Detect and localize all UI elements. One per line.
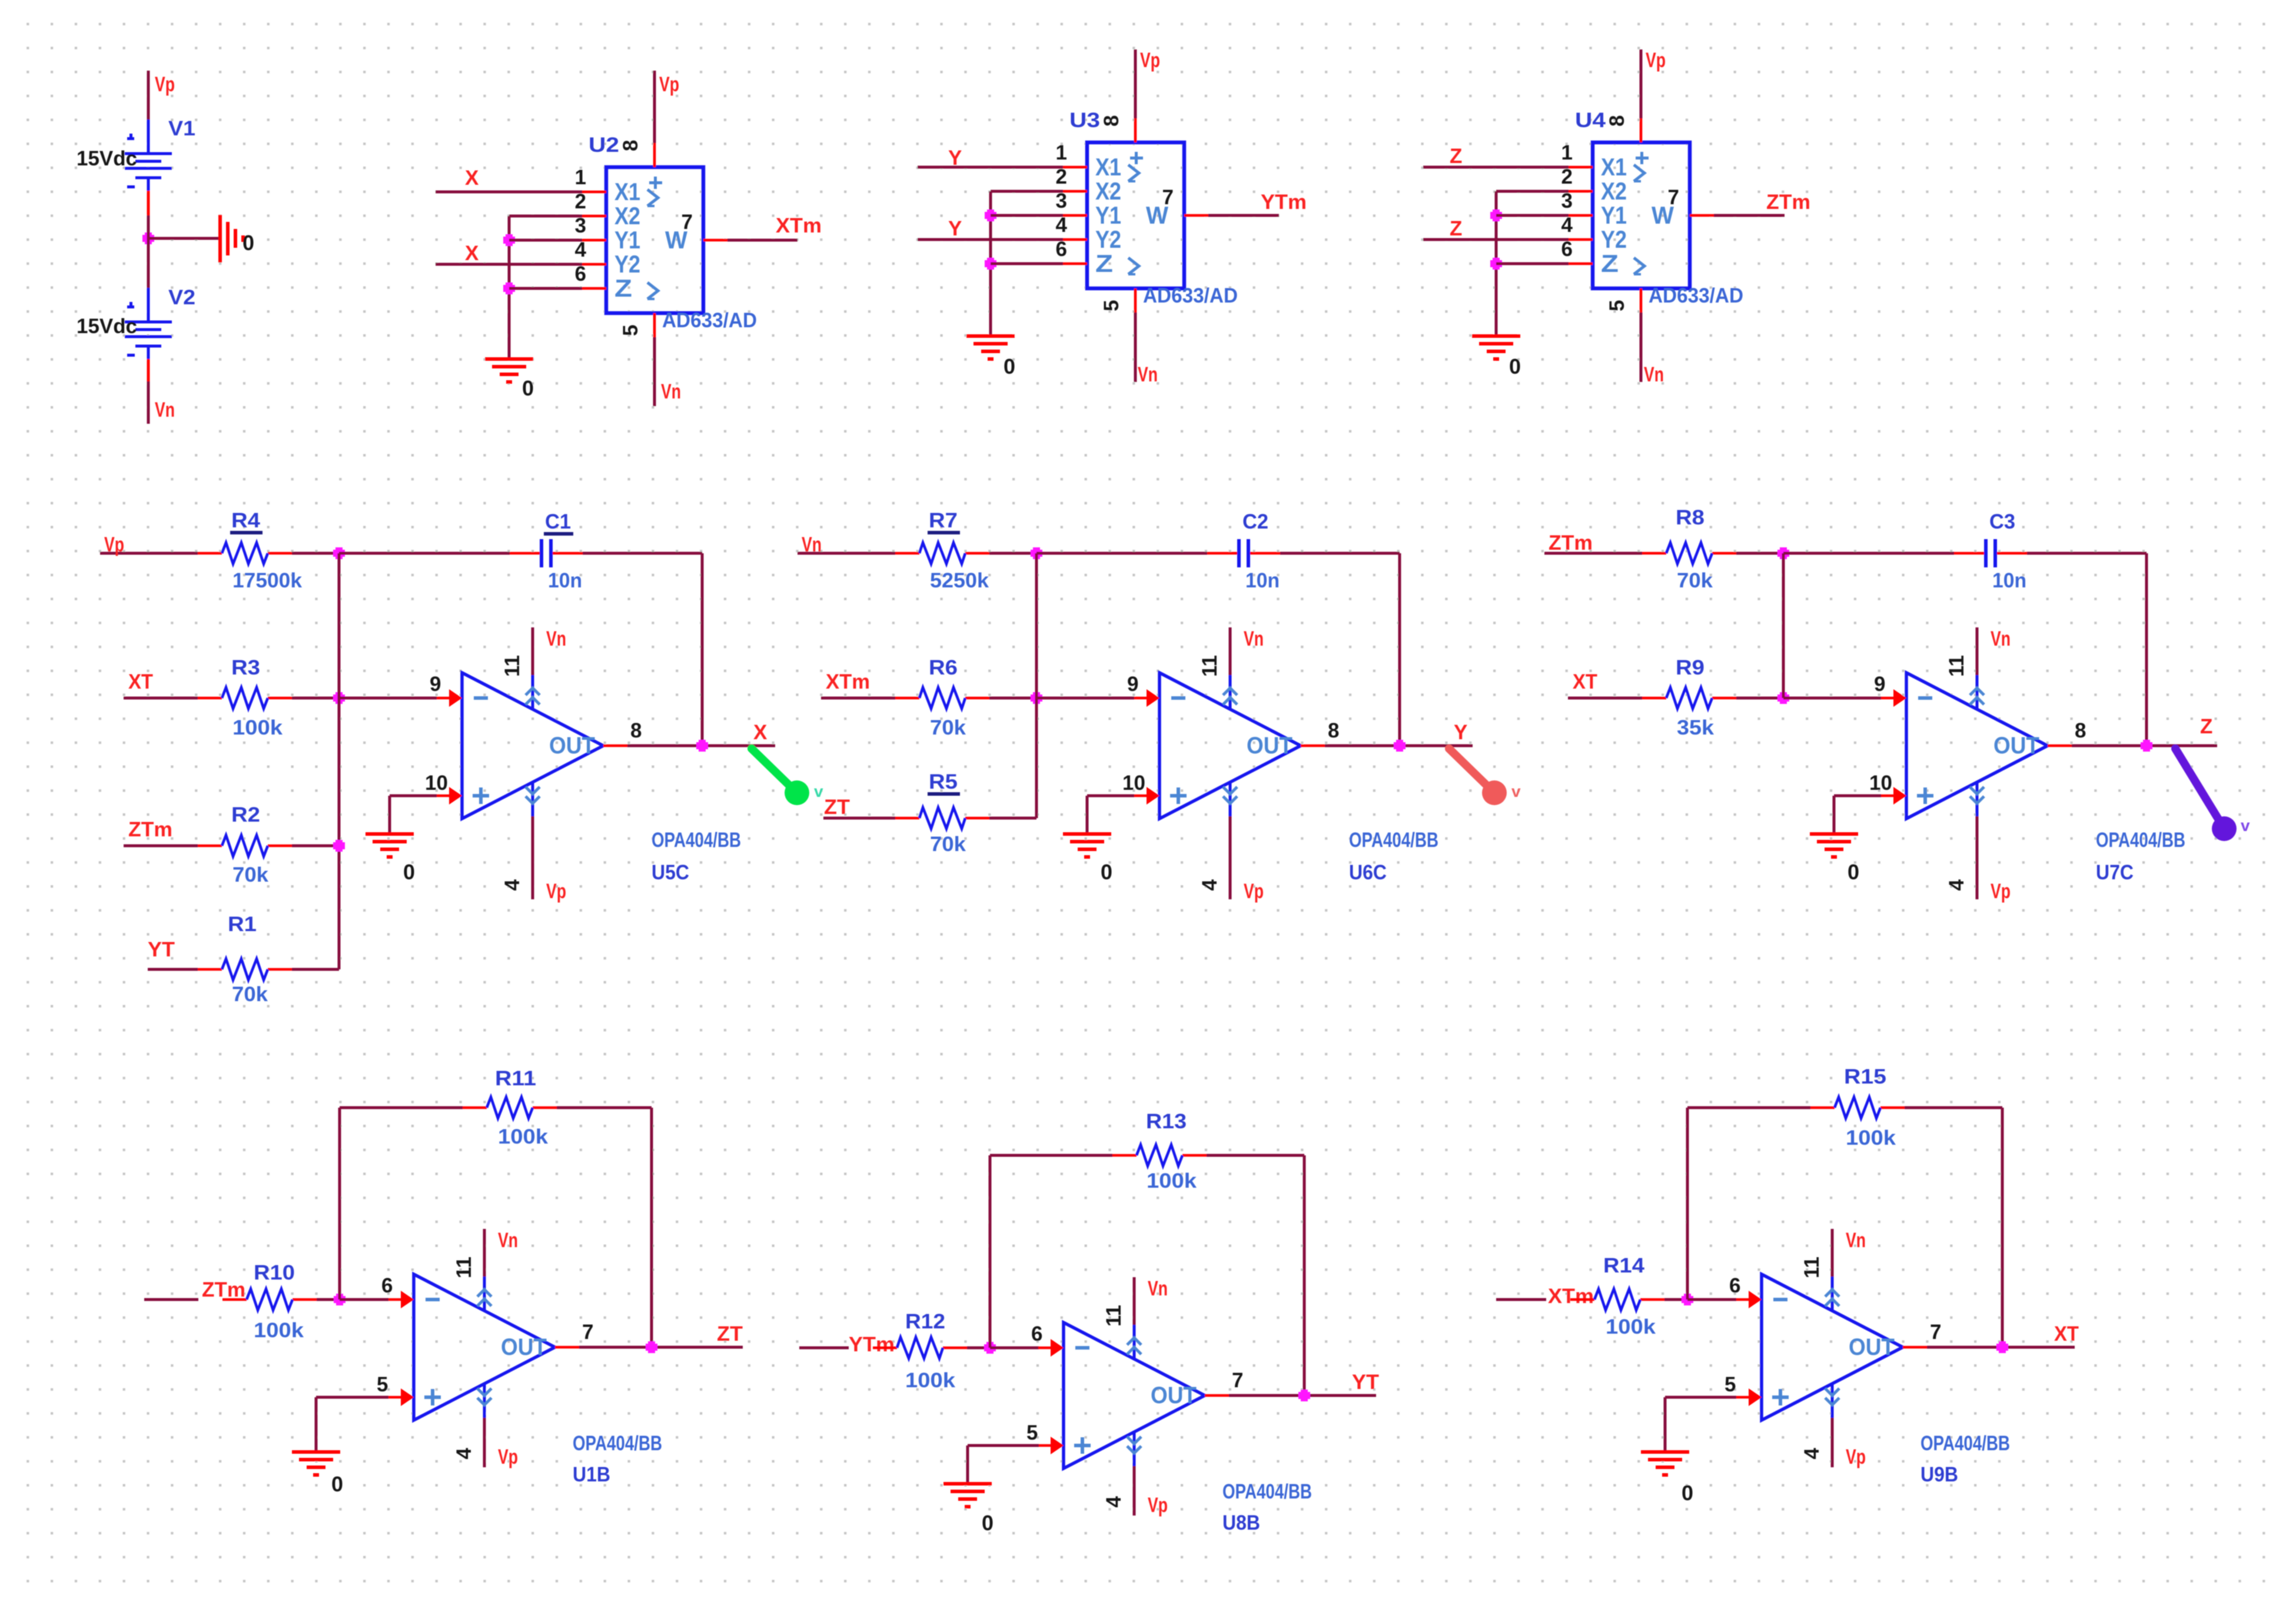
svg-text:9: 9 bbox=[1127, 673, 1138, 696]
svg-text:V2: V2 bbox=[168, 286, 195, 309]
wire Y to U3 pin 1 bbox=[918, 166, 1063, 169]
svg-text:Vn: Vn bbox=[498, 1229, 518, 1252]
resistor R3 100k bbox=[198, 656, 292, 739]
svg-text:Vp: Vp bbox=[1646, 49, 1666, 72]
resistor R14 100k bbox=[1570, 1254, 1664, 1338]
svg-text:6: 6 bbox=[1729, 1274, 1740, 1297]
wire R12 to junction bbox=[967, 1347, 990, 1350]
svg-text:10n: 10n bbox=[548, 569, 582, 592]
junction R8/C3/bus bbox=[1777, 547, 1789, 559]
svg-text:U6C: U6C bbox=[1349, 861, 1387, 884]
svg-text:R12: R12 bbox=[905, 1310, 945, 1333]
svg-text:70k: 70k bbox=[1677, 569, 1713, 592]
svg-text:5: 5 bbox=[1606, 300, 1629, 311]
wire U7C + input to ground bbox=[1834, 796, 1881, 834]
net label Vp (V1 top) bbox=[155, 73, 175, 96]
voltage probe Y (red) bbox=[1449, 749, 1521, 805]
wire U5C out to X bbox=[627, 745, 775, 747]
resistor R12 100k bbox=[873, 1310, 967, 1392]
resistor R15 100k bbox=[1810, 1065, 1905, 1149]
wire R3 to junction bbox=[292, 697, 339, 700]
wire R15 to right corner bbox=[1905, 1106, 2002, 1109]
svg-text:10: 10 bbox=[425, 772, 448, 795]
svg-text:0: 0 bbox=[1101, 860, 1112, 884]
wire U2 bus to pin Z bbox=[509, 287, 582, 290]
junction R12/U8B-/fb bbox=[984, 1342, 996, 1354]
svg-text:Vp: Vp bbox=[104, 533, 124, 556]
svg-text:U8B: U8B bbox=[1222, 1511, 1260, 1534]
svg-text:Vn: Vn bbox=[1244, 627, 1264, 650]
svg-text:4: 4 bbox=[1800, 1447, 1823, 1459]
svg-text:Vn: Vn bbox=[802, 533, 822, 556]
svg-text:11: 11 bbox=[1945, 655, 1968, 677]
wire U7C out to Z bbox=[2072, 745, 2217, 747]
svg-text:Vn: Vn bbox=[1846, 1229, 1866, 1252]
wire Y to U3 pin Y2 bbox=[918, 238, 1063, 241]
wire R6 to junction bbox=[989, 697, 1036, 700]
svg-text:35k: 35k bbox=[1677, 716, 1714, 739]
wire U2 bus to pin Y1 bbox=[509, 239, 582, 242]
svg-text:70k: 70k bbox=[930, 716, 966, 739]
junction U4 bus Y1 bbox=[1490, 210, 1502, 221]
svg-text:U7C: U7C bbox=[2096, 861, 2134, 884]
wire U3 ground bus bbox=[989, 191, 992, 336]
svg-text:9: 9 bbox=[1874, 673, 1885, 696]
wire R9 to junction bbox=[1736, 697, 1783, 700]
net label ZTm (R10 in) bbox=[202, 1278, 245, 1301]
svg-text:ZTm: ZTm bbox=[1766, 191, 1810, 214]
wire Z to U4 pin Y2 bbox=[1423, 238, 1569, 241]
wire fb corner to R13 bbox=[990, 1154, 1112, 1157]
net label YTm bbox=[1261, 191, 1307, 214]
svg-text:OPA404/BB: OPA404/BB bbox=[573, 1432, 662, 1455]
svg-text:X: X bbox=[465, 167, 479, 190]
svg-text:YTm: YTm bbox=[849, 1333, 895, 1356]
svg-text:4: 4 bbox=[1945, 879, 1968, 890]
net label Z (U7C out) bbox=[2200, 715, 2212, 738]
svg-text:8: 8 bbox=[619, 140, 642, 151]
svg-text:R2: R2 bbox=[231, 803, 260, 826]
net label XT (U9B out) bbox=[2054, 1322, 2079, 1345]
svg-text:5: 5 bbox=[1100, 300, 1123, 311]
wire R10 to junction bbox=[317, 1298, 340, 1301]
resistor R13 100k bbox=[1112, 1110, 1207, 1192]
svg-text:R15: R15 bbox=[1844, 1065, 1886, 1088]
op-amp U6C OPA404/BB bbox=[1122, 627, 1438, 903]
wire U2 bus X2 row bbox=[509, 215, 582, 218]
junction U5C out/C1 bbox=[696, 740, 708, 752]
wire U9B feedback down bbox=[2001, 1108, 2004, 1347]
wire XTm to R6 bbox=[821, 697, 895, 700]
wire Vn to R7 bbox=[798, 552, 895, 555]
net label YTm (R12 in) bbox=[849, 1333, 895, 1356]
svg-text:4: 4 bbox=[575, 238, 587, 261]
svg-text:ZTm: ZTm bbox=[1549, 531, 1593, 554]
svg-text:5: 5 bbox=[1026, 1421, 1038, 1444]
op-amp U1B OPA404/BB bbox=[377, 1229, 662, 1486]
svg-text:Y2: Y2 bbox=[1095, 225, 1121, 253]
svg-text:XTm: XTm bbox=[826, 670, 870, 693]
wire XT to R3 bbox=[124, 697, 198, 700]
ground 0 (U5C) bbox=[366, 834, 415, 884]
svg-text:7: 7 bbox=[1232, 1369, 1243, 1392]
junction R7/C2/bus bbox=[1031, 547, 1042, 559]
net label ZT (U1B out) bbox=[717, 1322, 743, 1345]
wire junction to U8B pin 6 bbox=[990, 1347, 1039, 1350]
resistor R2 70k bbox=[198, 803, 292, 886]
svg-text:6: 6 bbox=[381, 1274, 393, 1297]
wire XTm to R14 bbox=[1496, 1298, 1546, 1301]
wire C1 to corner bbox=[583, 552, 702, 555]
svg-text:100k: 100k bbox=[254, 1319, 304, 1342]
svg-text:Z: Z bbox=[1095, 250, 1113, 277]
svg-text:5: 5 bbox=[619, 325, 642, 336]
wire fb corner to R15 bbox=[1687, 1106, 1810, 1109]
net label Vn (U3) bbox=[1138, 363, 1158, 386]
svg-text:100k: 100k bbox=[1606, 1315, 1656, 1338]
net label Y (U3 Y2) bbox=[948, 217, 962, 240]
svg-text:YT: YT bbox=[148, 938, 175, 961]
net label Z (U4 X1) bbox=[1450, 145, 1462, 168]
wire R1 to bus corner bbox=[292, 968, 339, 971]
svg-text:17500k: 17500k bbox=[232, 569, 303, 592]
svg-text:100k: 100k bbox=[232, 716, 283, 739]
wire U3 W to YTm bbox=[1208, 214, 1279, 217]
svg-text:6: 6 bbox=[1056, 238, 1067, 261]
wire U8B feedback up bbox=[989, 1155, 992, 1348]
svg-text:7: 7 bbox=[1668, 186, 1679, 209]
svg-text:Z: Z bbox=[614, 274, 632, 302]
ground 0 (sources) bbox=[220, 215, 254, 262]
svg-text:X1: X1 bbox=[614, 178, 640, 205]
svg-text:OPA404/BB: OPA404/BB bbox=[1920, 1432, 2010, 1455]
svg-text:ZTm: ZTm bbox=[128, 818, 172, 841]
wire junction to ground 0 bbox=[148, 237, 220, 240]
net label ZTm bbox=[1766, 191, 1810, 214]
net label ZTm (R8 in) bbox=[1549, 531, 1593, 554]
svg-text:Z: Z bbox=[1450, 217, 1462, 240]
svg-text:C2: C2 bbox=[1242, 510, 1268, 533]
net label Vp (U3) bbox=[1140, 49, 1160, 72]
ground 0 (U9B) bbox=[1641, 1452, 1693, 1505]
wire X to U2 pin Y2 bbox=[436, 263, 582, 266]
wire integrator1 bus bbox=[338, 553, 341, 969]
svg-text:Y2: Y2 bbox=[1601, 225, 1627, 253]
svg-text:R11: R11 bbox=[495, 1067, 536, 1090]
svg-text:5: 5 bbox=[377, 1373, 388, 1396]
svg-text:4: 4 bbox=[501, 879, 524, 890]
svg-text:11: 11 bbox=[1198, 655, 1221, 677]
svg-text:Vp: Vp bbox=[1148, 1494, 1168, 1517]
voltage source V2 15Vdc bbox=[77, 286, 195, 384]
wire ZTm to R8 bbox=[1544, 552, 1642, 555]
svg-text:U2: U2 bbox=[589, 134, 619, 157]
wire U6C out to Y bbox=[1325, 745, 1473, 747]
junction U8B out/fb bbox=[1298, 1390, 1310, 1401]
svg-text:U1B: U1B bbox=[573, 1463, 610, 1486]
net label Vp (R4 in) bbox=[104, 533, 124, 556]
svg-text:AD633/AD: AD633/AD bbox=[1143, 284, 1238, 307]
wire U6C + input to ground bbox=[1087, 796, 1134, 834]
svg-text:v: v bbox=[814, 782, 823, 800]
svg-text:9: 9 bbox=[430, 673, 441, 696]
svg-text:OUT: OUT bbox=[501, 1334, 547, 1360]
svg-text:1: 1 bbox=[1056, 141, 1067, 164]
wire U4 pin 5 to Vn bbox=[1640, 313, 1643, 382]
svg-text:1: 1 bbox=[1561, 141, 1573, 164]
svg-text:Y1: Y1 bbox=[614, 226, 640, 254]
svg-text:0: 0 bbox=[403, 860, 415, 884]
svg-text:5: 5 bbox=[1725, 1373, 1736, 1396]
svg-text:C1: C1 bbox=[545, 510, 571, 533]
wire V1 to junction bbox=[147, 215, 150, 238]
wire C3 feedback down bbox=[2145, 553, 2148, 746]
net label XT (R3 in) bbox=[128, 670, 153, 693]
svg-text:Vp: Vp bbox=[1244, 880, 1264, 903]
svg-text:R4: R4 bbox=[231, 509, 261, 532]
wire junction to C3 bbox=[1783, 552, 1954, 555]
svg-text:70k: 70k bbox=[232, 983, 268, 1006]
svg-text:3: 3 bbox=[1561, 190, 1573, 212]
wire XT to R9 bbox=[1568, 697, 1642, 700]
svg-text:4: 4 bbox=[1561, 214, 1573, 237]
net label X (U5C out) bbox=[753, 721, 767, 744]
wire R2 to bus bbox=[292, 845, 339, 848]
wire U3 bus to pin Z bbox=[991, 262, 1063, 265]
net label Y (U3 X1) bbox=[948, 147, 962, 170]
svg-text:11: 11 bbox=[1800, 1257, 1823, 1278]
net label Vp (U2) bbox=[659, 73, 679, 96]
svg-text:ZTm: ZTm bbox=[202, 1278, 245, 1301]
wire R5 to bus corner bbox=[989, 817, 1036, 820]
junction R4/C1/bus bbox=[333, 547, 345, 559]
svg-text:6: 6 bbox=[575, 262, 586, 285]
wire U1B out to ZT bbox=[579, 1346, 743, 1349]
svg-text:XT: XT bbox=[128, 670, 153, 693]
wire U5C + input to ground bbox=[390, 796, 437, 834]
svg-text:Y: Y bbox=[1454, 721, 1467, 744]
voltage probe X (green) bbox=[752, 749, 823, 805]
svg-text:70k: 70k bbox=[232, 863, 269, 886]
wire U9B + input to ground bbox=[1665, 1397, 1736, 1452]
junction U2 bus Y1 bbox=[503, 234, 515, 246]
svg-text:Vp: Vp bbox=[1991, 880, 2011, 903]
junction U2 bus Z bbox=[503, 283, 515, 294]
resistor R5 70k bbox=[895, 770, 989, 856]
wire YTm to R12 bbox=[799, 1347, 849, 1350]
wire ZTm to R2 bbox=[124, 845, 198, 848]
svg-text:Vp: Vp bbox=[155, 73, 175, 96]
voltage source V1 15Vdc bbox=[77, 117, 195, 215]
wire R14 to junction bbox=[1664, 1298, 1687, 1301]
net label XTm (R6 in) bbox=[826, 670, 870, 693]
net label X (U2 Y2) bbox=[465, 242, 479, 265]
svg-text:Y2: Y2 bbox=[614, 250, 640, 278]
junction R14/U9B-/fb bbox=[1682, 1294, 1693, 1305]
wire U3 bus to pin Y1 bbox=[991, 214, 1063, 217]
svg-text:Z: Z bbox=[2200, 715, 2212, 738]
svg-text:0: 0 bbox=[1848, 860, 1859, 884]
svg-text:8: 8 bbox=[1328, 719, 1339, 742]
svg-text:Y: Y bbox=[948, 217, 962, 240]
wire U4 ground bus bbox=[1495, 191, 1498, 336]
wire U4 bus to pin Y1 bbox=[1496, 214, 1569, 217]
svg-text:Z: Z bbox=[1450, 145, 1462, 168]
net label Vp (U4) bbox=[1646, 49, 1666, 72]
junction U3 bus Z bbox=[985, 258, 996, 270]
wire C3 to corner bbox=[2027, 552, 2147, 555]
multiplier U4 AD633/AD bbox=[1561, 109, 1743, 313]
svg-text:100k: 100k bbox=[905, 1369, 956, 1392]
wire U9B feedback up bbox=[1686, 1108, 1689, 1300]
svg-text:OPA404/BB: OPA404/BB bbox=[1349, 829, 1438, 852]
junction R6/bus/U6C- bbox=[1031, 692, 1042, 704]
wire R7 to junction bbox=[989, 552, 1036, 555]
svg-text:YTm: YTm bbox=[1261, 191, 1307, 214]
wire C1 feedback down bbox=[701, 553, 704, 746]
svg-text:Vn: Vn bbox=[1148, 1277, 1168, 1300]
svg-text:R6: R6 bbox=[929, 656, 958, 679]
svg-text:0: 0 bbox=[522, 376, 534, 400]
svg-text:R10: R10 bbox=[254, 1261, 295, 1284]
svg-text:C3: C3 bbox=[1989, 510, 2015, 533]
svg-text:XTm: XTm bbox=[1548, 1285, 1594, 1308]
svg-text:OUT: OUT bbox=[1247, 733, 1292, 759]
svg-text:R1: R1 bbox=[228, 913, 257, 936]
wire Vp to U4 pin 8 bbox=[1640, 49, 1643, 118]
wire C2 to corner bbox=[1280, 552, 1400, 555]
junction R9/bus/U7C- bbox=[1777, 692, 1789, 704]
svg-text:X2: X2 bbox=[614, 202, 640, 230]
wire Z to U4 pin 1 bbox=[1423, 166, 1569, 169]
svg-text:X1: X1 bbox=[1601, 153, 1627, 181]
svg-text:X1: X1 bbox=[1095, 153, 1121, 181]
net label Vn (R7 in) bbox=[802, 533, 822, 556]
wire ZT to R5 bbox=[823, 817, 895, 820]
svg-text:0: 0 bbox=[982, 1511, 994, 1535]
svg-text:100k: 100k bbox=[1147, 1169, 1197, 1192]
svg-text:Vn: Vn bbox=[155, 398, 175, 421]
junction U3 bus Y1 bbox=[985, 210, 996, 221]
ground 0 (U8B) bbox=[943, 1484, 994, 1535]
resistor R10 100k bbox=[222, 1261, 317, 1342]
svg-text:100k: 100k bbox=[498, 1125, 549, 1148]
capacitor C2 10n bbox=[1207, 510, 1280, 592]
wire U8B out to YT bbox=[1229, 1394, 1376, 1397]
ground 0 (U4) bbox=[1472, 336, 1521, 378]
svg-text:6: 6 bbox=[1031, 1322, 1042, 1345]
net label XTm bbox=[776, 214, 822, 237]
wire C2 feedback down bbox=[1398, 553, 1401, 746]
wire integrator3 bus bbox=[1782, 553, 1785, 698]
resistor R8 70k bbox=[1642, 506, 1736, 592]
svg-text:11: 11 bbox=[501, 655, 524, 677]
svg-text:Y1: Y1 bbox=[1095, 201, 1121, 229]
wire U2 W to XTm bbox=[727, 239, 798, 242]
wire fb corner to R11 bbox=[340, 1106, 463, 1109]
svg-text:4: 4 bbox=[453, 1447, 476, 1459]
svg-text:6: 6 bbox=[1561, 238, 1573, 261]
svg-text:X2: X2 bbox=[1601, 177, 1627, 205]
ground 0 (U6C) bbox=[1063, 834, 1112, 884]
svg-text:15Vdc: 15Vdc bbox=[77, 315, 137, 338]
wire X to U2 pin 1 bbox=[436, 191, 582, 194]
svg-text:OUT: OUT bbox=[1151, 1383, 1197, 1408]
svg-text:Vn: Vn bbox=[1138, 363, 1158, 386]
wire U1B feedback down bbox=[650, 1108, 653, 1347]
svg-text:Vn: Vn bbox=[1991, 627, 2011, 650]
wire junction to C2 bbox=[1036, 552, 1207, 555]
svg-text:AD633/AD: AD633/AD bbox=[1649, 284, 1743, 307]
svg-text:0: 0 bbox=[1682, 1481, 1693, 1505]
svg-text:7: 7 bbox=[682, 211, 693, 234]
op-amp U7C OPA404/BB bbox=[1869, 627, 2185, 903]
wire Vp to R4 bbox=[100, 552, 198, 555]
svg-text:0: 0 bbox=[242, 231, 254, 255]
svg-text:10: 10 bbox=[1869, 772, 1892, 795]
svg-text:8: 8 bbox=[1100, 115, 1123, 127]
wire U3 bus X2 row bbox=[991, 190, 1063, 193]
wire junction to U5C pin 9 bbox=[339, 697, 437, 700]
svg-text:ZT: ZT bbox=[717, 1322, 743, 1345]
svg-text:XTm: XTm bbox=[776, 214, 822, 237]
svg-text:OUT: OUT bbox=[549, 733, 595, 759]
op-amp U8B OPA404/BB bbox=[1026, 1277, 1312, 1534]
svg-text:4: 4 bbox=[1056, 214, 1068, 237]
svg-text:v: v bbox=[2241, 816, 2250, 835]
wire R4 to junction bbox=[292, 552, 339, 555]
svg-text:11: 11 bbox=[1102, 1305, 1125, 1327]
ground 0 (U3) bbox=[966, 336, 1015, 378]
net label Y (U6C out) bbox=[1454, 721, 1467, 744]
net label Vn (U2) bbox=[661, 380, 681, 403]
wire junction to C1 bbox=[339, 552, 510, 555]
svg-text:Z: Z bbox=[1601, 250, 1619, 277]
svg-text:U9B: U9B bbox=[1920, 1463, 1958, 1486]
svg-text:10: 10 bbox=[1122, 772, 1145, 795]
svg-text:R5: R5 bbox=[929, 770, 958, 793]
net label YT (R1 in) bbox=[148, 938, 175, 961]
svg-text:10n: 10n bbox=[1992, 569, 2026, 592]
wire Vp to V1 bbox=[147, 71, 150, 119]
svg-text:0: 0 bbox=[1509, 354, 1521, 378]
svg-text:Vp: Vp bbox=[659, 73, 679, 96]
svg-text:X: X bbox=[465, 242, 479, 265]
wire ZTm to R10 bbox=[144, 1298, 198, 1301]
capacitor C3 10n bbox=[1954, 510, 2027, 592]
wire U9B out to XT bbox=[1927, 1346, 2075, 1349]
wire junction to U9B pin 6 bbox=[1687, 1298, 1736, 1301]
net label X (U2 X1) bbox=[465, 167, 479, 190]
resistor R1 70k bbox=[198, 913, 292, 1006]
wire U3 pin 5 to Vn bbox=[1134, 313, 1137, 382]
junction R2/bus bbox=[333, 840, 345, 852]
wire junction to U1B pin 6 bbox=[340, 1298, 388, 1301]
wire U1B feedback up bbox=[338, 1108, 341, 1300]
capacitor C1 10n bbox=[510, 510, 583, 592]
svg-text:R9: R9 bbox=[1676, 656, 1704, 679]
junction U6C out/C2 bbox=[1394, 740, 1405, 752]
svg-text:Vp: Vp bbox=[1846, 1445, 1866, 1468]
svg-text:X: X bbox=[753, 721, 767, 744]
svg-text:8: 8 bbox=[2075, 719, 2086, 742]
svg-text:4: 4 bbox=[1198, 879, 1221, 890]
wire R13 to right corner bbox=[1207, 1154, 1304, 1157]
svg-text:OPA404/BB: OPA404/BB bbox=[1222, 1480, 1312, 1503]
wire V2 to Vn bbox=[147, 381, 150, 424]
svg-text:70k: 70k bbox=[930, 833, 966, 856]
svg-text:7: 7 bbox=[1930, 1321, 1941, 1344]
